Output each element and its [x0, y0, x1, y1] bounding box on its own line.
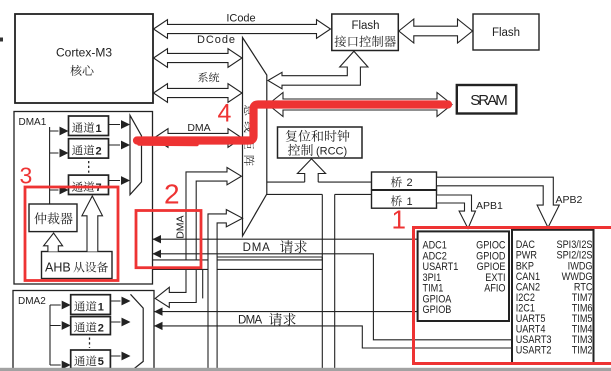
- DMA1 channel distribution line: [50, 127, 59, 204]
- svg-text:Flash: Flash: [351, 20, 379, 32]
- box SRAM: [457, 85, 517, 114]
- red box 2 around DMA label: [136, 211, 201, 268]
- box bridge 1 (qiao 1): [372, 190, 437, 208]
- box DMA1 channel 7: [69, 175, 109, 194]
- svg-text:DMA: DMA: [238, 315, 263, 327]
- svg-text:2: 2: [164, 179, 180, 210]
- DMA1 mux funnel: [130, 115, 142, 194]
- box arbiter (zhongcaiqi): [29, 204, 77, 232]
- band2 arrowhead lower: [154, 322, 163, 330]
- arrow bus matrix to SRAM: [268, 93, 452, 117]
- DMA request band 1 upper line: [153, 238, 418, 240]
- svg-text:2: 2: [96, 145, 102, 157]
- DMA request band 2 upper line: [154, 311, 418, 313]
- system rail bus matrix to bridges: [267, 182, 372, 194]
- arrow AHB slave up to channel 7: [82, 196, 103, 252]
- svg-text:DMA: DMA: [243, 242, 271, 254]
- arrow AHB slave up to arbiter: [44, 233, 63, 252]
- bottom grey border band: [0, 368, 611, 371]
- hollow path bus matrix down (bar B): [208, 210, 243, 371]
- svg-text:DCode: DCode: [197, 34, 235, 46]
- svg-text:1: 1: [98, 302, 104, 314]
- arrow DCode: [154, 34, 243, 67]
- svg-text:Cortex-M3: Cortex-M3: [56, 46, 112, 60]
- svg-text:DMA1: DMA1: [19, 117, 47, 128]
- DMA1 mux arrowheads: [121, 120, 130, 185]
- DMA request band 2 lower line jog to right peripheral box: [154, 326, 512, 348]
- box DMA2 channel 1: [71, 295, 111, 315]
- arrow Flash-IF to Flash: [399, 19, 473, 43]
- svg-text:AHB: AHB: [45, 261, 71, 275]
- box Cortex-M3 core: [15, 14, 153, 103]
- DMA request label 2: [238, 313, 296, 327]
- dotted ellipsis DMA1 channels: [88, 161, 90, 174]
- bus matrix (zongxian juzhen): [243, 38, 267, 237]
- arrow ICode: [154, 12, 331, 38]
- svg-text:APB1: APB1: [476, 200, 503, 212]
- band1 arrowhead lower: [153, 250, 162, 258]
- box Flash memory: [473, 14, 539, 50]
- box RCC reset and clock control: [278, 127, 363, 158]
- svg-text:Flash: Flash: [492, 27, 520, 39]
- svg-text:1: 1: [407, 196, 413, 208]
- svg-text:ICode: ICode: [226, 12, 255, 24]
- box APB1 peripherals: [512, 230, 594, 363]
- svg-text:3: 3: [20, 163, 33, 189]
- svg-text:2: 2: [98, 322, 104, 334]
- DMA request label 1: [243, 240, 307, 254]
- svg-text:(RCC): (RCC): [316, 146, 347, 158]
- box APB2 peripherals: [418, 231, 509, 321]
- hollow branch arrow to DMA1 AHB slave: [114, 256, 323, 275]
- svg-text:2: 2: [407, 177, 413, 189]
- svg-text:GPIOB: GPIOB: [423, 304, 452, 316]
- DMA2 channels to mux lines: [110, 301, 120, 356]
- svg-text:APB2: APB2: [556, 194, 583, 206]
- DMA2 mux arrowheads: [122, 297, 131, 361]
- red stroke overshoot left end: [139, 142, 197, 146]
- svg-text:DMA: DMA: [175, 215, 187, 238]
- svg-text:4: 4: [218, 100, 232, 128]
- DMA request band 1 lower line jog to right peripheral box: [153, 254, 513, 340]
- box DMA2 channel 5: [71, 350, 111, 369]
- svg-text:AFIO: AFIO: [484, 283, 505, 295]
- svg-text:DMA2: DMA2: [18, 296, 46, 307]
- svg-text:DMA: DMA: [187, 122, 210, 134]
- L-arrow bus matrix to Flash interface: [268, 51, 368, 89]
- DMA2 mux funnel: [131, 294, 144, 371]
- vertical AHB line to DMA2 slave: [202, 269, 204, 298]
- DMA1 channels to mux lines: [109, 125, 121, 181]
- svg-text:SRAM: SRAM: [470, 92, 508, 109]
- band1 arrowhead upper: [153, 235, 162, 243]
- DMA1 branch arrowheads: [60, 127, 69, 195]
- red box 1 around peripheral boxes: [414, 228, 611, 364]
- svg-text:TIM2: TIM2: [572, 345, 593, 357]
- APB1 connector and down arrow: [437, 195, 503, 229]
- APB2 connector and down arrow: [437, 177, 583, 227]
- band2 arrowhead upper: [154, 307, 163, 315]
- arrow up into RCC: [297, 159, 325, 182]
- junction vertical at branch: [321, 257, 323, 270]
- dotted ellipsis DMA2 channels: [89, 338, 91, 349]
- box DMA2: [13, 291, 154, 371]
- arrow DMA bus: [154, 122, 242, 148]
- box DMA1: [14, 112, 153, 285]
- svg-text:5: 5: [98, 356, 104, 368]
- horizontal line bar B to junction vertical: [217, 256, 322, 258]
- hollow path bus matrix to DMA2 (two-headed L): [155, 168, 241, 308]
- box AHB slave (AHB cong shebei): [42, 252, 113, 279]
- box DMA1 channel 2: [69, 139, 109, 158]
- red box 3 around arbiter and AHB slave: [25, 187, 118, 281]
- box Flash interface controller: [332, 14, 399, 51]
- screenshot artifact left edge mark: [0, 38, 3, 42]
- box DMA1 channel 1 (tongdao 1): [69, 116, 109, 136]
- DMA2 channel distribution line: [50, 305, 61, 365]
- box bridge 2 (qiao 2): [372, 172, 437, 190]
- DMA2 branch arrowheads: [62, 301, 71, 370]
- box DMA2 channel 2: [71, 317, 111, 335]
- vertical AHB lines to bottom: [322, 194, 334, 371]
- arrow system bus (xitong): [154, 72, 243, 102]
- svg-text:1: 1: [392, 205, 406, 235]
- red highlight stroke bus-matrix to SRAM: [137, 105, 448, 141]
- svg-text:1: 1: [96, 123, 102, 135]
- svg-text:USART2: USART2: [516, 345, 552, 357]
